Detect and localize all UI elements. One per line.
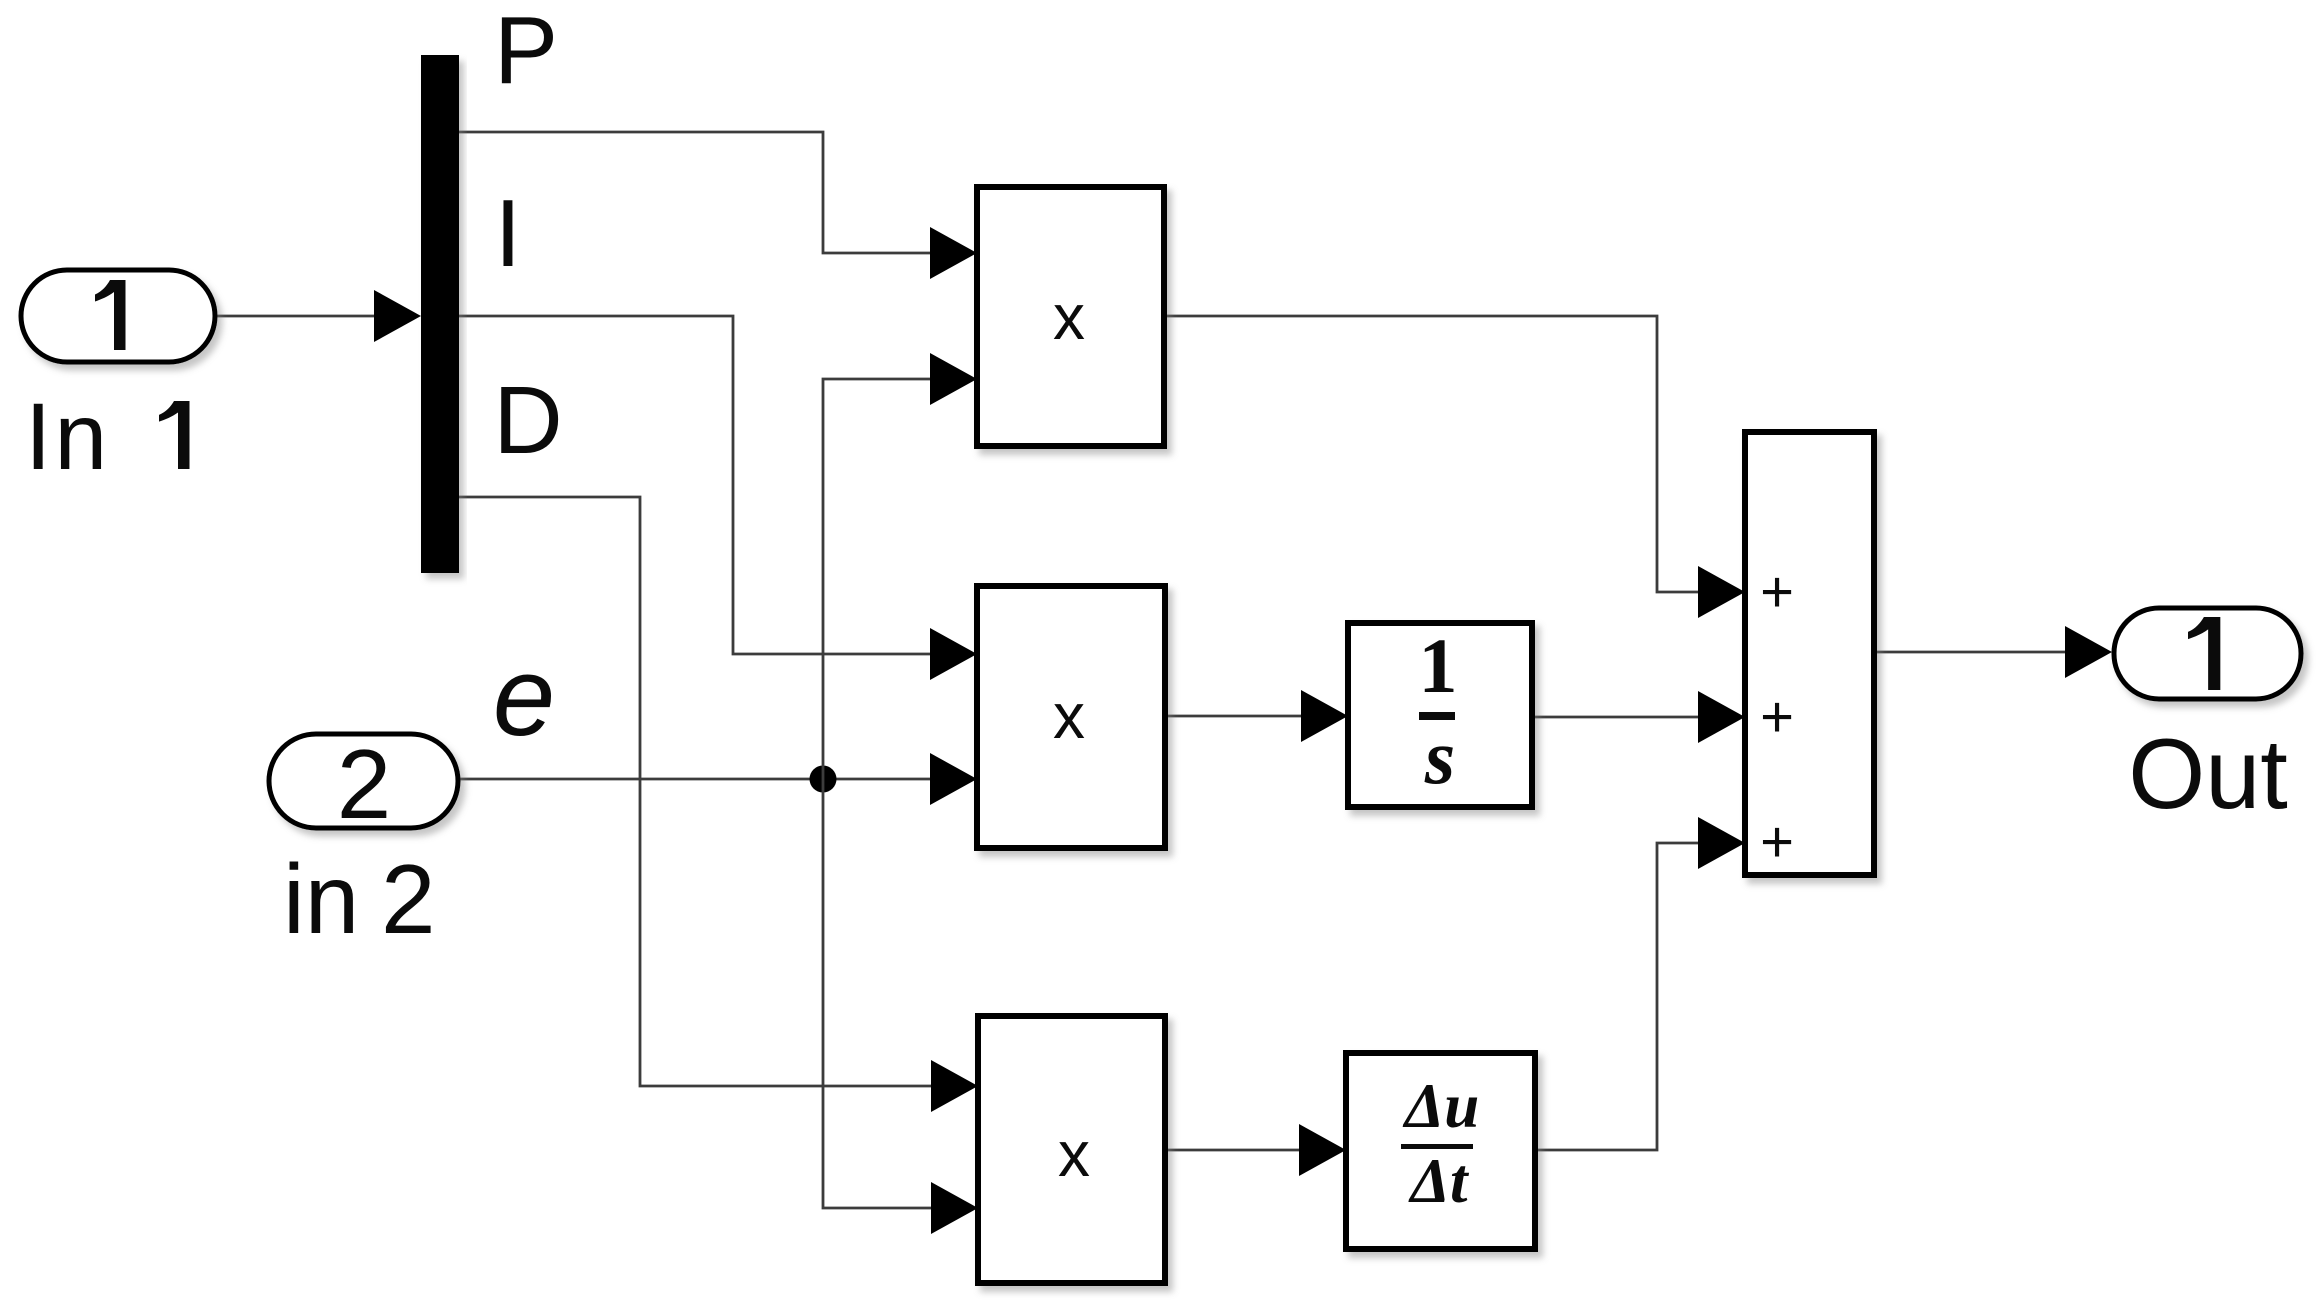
wire In1 to demux	[215, 290, 421, 342]
wire sum to Out	[1874, 626, 2112, 678]
wire product3 to derivative	[1165, 1124, 1346, 1176]
svg-text:2: 2	[381, 844, 436, 954]
demux bar	[421, 55, 459, 573]
integrator block 1/s	[1348, 623, 1532, 807]
sum block	[1745, 432, 1874, 875]
wire product2 to integrator	[1165, 690, 1348, 742]
svg-text:+: +	[1760, 810, 1794, 875]
node junction e	[810, 766, 837, 793]
product block 1	[977, 187, 1164, 446]
wire derivative to sum	[1535, 817, 1745, 1150]
svg-text:P: P	[494, 0, 558, 104]
svg-text:Out: Out	[2128, 718, 2288, 829]
svg-text:+: +	[1760, 685, 1794, 750]
svg-text:x: x	[1058, 1118, 1090, 1190]
svg-text:Δt: Δt	[1407, 1146, 1469, 1216]
wire e branch down	[823, 779, 978, 1234]
svg-text:Δu: Δu	[1402, 1071, 1480, 1141]
derivative block du/dt	[1346, 1053, 1535, 1249]
svg-text:+: +	[1760, 560, 1794, 625]
wire P channel	[459, 132, 977, 279]
outport 1	[2114, 608, 2301, 699]
svg-text:1: 1	[1419, 622, 1458, 709]
svg-text:In: In	[25, 384, 110, 490]
svg-text:2: 2	[337, 729, 392, 839]
wire D channel	[459, 497, 978, 1112]
svg-text:x: x	[1053, 281, 1085, 353]
wire integrator to sum	[1532, 691, 1745, 743]
wire e branch up	[823, 353, 977, 779]
wire product1 to sum	[1164, 316, 1745, 618]
wire I channel	[459, 316, 977, 680]
product block 2	[977, 586, 1165, 848]
svg-text:s: s	[1424, 713, 1455, 800]
inport 1	[21, 270, 215, 362]
svg-text:e: e	[493, 634, 555, 759]
inport 2	[269, 734, 458, 828]
product block 3	[978, 1016, 1165, 1283]
svg-text:x: x	[1053, 680, 1085, 752]
svg-text:I: I	[495, 180, 522, 287]
svg-text:D: D	[493, 367, 562, 474]
wire e from In2	[458, 753, 977, 805]
svg-text:in: in	[283, 844, 359, 954]
